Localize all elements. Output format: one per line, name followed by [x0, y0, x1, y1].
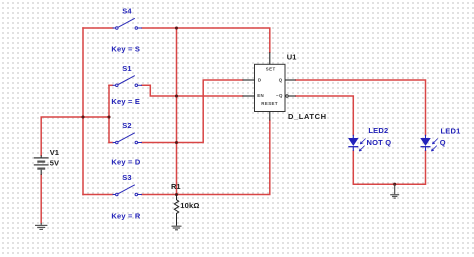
pin D stub: [243, 79, 255, 81]
svg-text:V1: V1: [50, 148, 59, 157]
node junction battery-switch bus: [107, 115, 110, 118]
wire LED bottom rail: [353, 151, 425, 184]
pin SET stub: [269, 52, 271, 64]
pin EN stub: [243, 95, 255, 97]
svg-text:S4: S4: [122, 6, 132, 15]
svg-text:Q: Q: [440, 138, 446, 147]
wire S1 left stub: [109, 84, 113, 86]
ground below R1: [172, 226, 182, 230]
node junction S2 line: [175, 141, 178, 144]
wire battery negative down: [40, 175, 42, 223]
node junction battery-left bus: [81, 115, 84, 118]
wire S3 out to RESET: [142, 121, 270, 195]
node junction EN line: [175, 94, 178, 97]
pin ~Q stub and bubble: [288, 95, 295, 97]
svg-text:S2: S2: [122, 121, 132, 130]
svg-text:5V: 5V: [50, 159, 59, 168]
svg-text:LED2: LED2: [368, 126, 388, 135]
pin Q stub: [285, 79, 296, 81]
LED1 arrows: [431, 139, 437, 152]
svg-text:Key = S: Key = S: [111, 45, 140, 54]
resistor R1: [174, 195, 178, 226]
wire S3 left feed: [83, 194, 113, 196]
svg-text:10kΩ: 10kΩ: [180, 201, 199, 210]
switch S4: [113, 18, 143, 29]
ground below LED rail: [390, 184, 399, 198]
wire Q to LED1: [296, 80, 426, 135]
svg-text:S1: S1: [122, 64, 132, 73]
switch S2: [113, 133, 143, 144]
ground below battery: [35, 223, 47, 230]
svg-text:SET: SET: [266, 67, 276, 72]
LED2 arrows: [359, 139, 365, 152]
node junction top rail: [175, 26, 178, 29]
wire top rail left (S4 feed): [83, 27, 113, 29]
svg-text:~Q: ~Q: [276, 93, 283, 98]
svg-text:Key = E: Key = E: [111, 97, 140, 106]
wire battery feed horizontal: [41, 117, 109, 155]
wire notQ to LED2: [296, 96, 354, 135]
svg-text:RESET: RESET: [261, 101, 278, 106]
svg-text:LED1: LED1: [441, 126, 461, 135]
svg-text:D: D: [258, 77, 262, 82]
op-amp-style latch box U1: [255, 64, 286, 111]
pin RESET stub: [269, 112, 271, 121]
node junction LED rail ground: [393, 183, 396, 186]
LED2 symbol: [348, 135, 358, 151]
node junction R1 top: [175, 193, 178, 196]
wire S1-S2 left vertical: [108, 85, 110, 142]
svg-text:S3: S3: [122, 173, 132, 182]
wire left vertical bus: [82, 28, 84, 195]
switch S1: [113, 76, 143, 87]
svg-text:NOT Q: NOT Q: [367, 138, 392, 147]
battery V1: [34, 155, 49, 175]
svg-text:Key = D: Key = D: [111, 158, 141, 167]
svg-text:D_LATCH: D_LATCH: [288, 112, 327, 121]
svg-text:Q: Q: [279, 77, 283, 82]
LED1 symbol: [421, 135, 431, 151]
svg-text:R1: R1: [171, 182, 181, 191]
wire S2 out to D: [142, 80, 243, 143]
svg-text:Key = R: Key = R: [111, 211, 141, 220]
svg-text:EN: EN: [257, 93, 264, 98]
wire S1 out to EN: [142, 85, 243, 96]
switch S3: [113, 185, 143, 196]
wire S2 left stub: [109, 142, 113, 144]
wire mid vertical bus (rail to R1): [176, 28, 178, 195]
wire top rail right (S4 to SET corner): [142, 28, 270, 52]
svg-text:U1: U1: [287, 53, 297, 62]
